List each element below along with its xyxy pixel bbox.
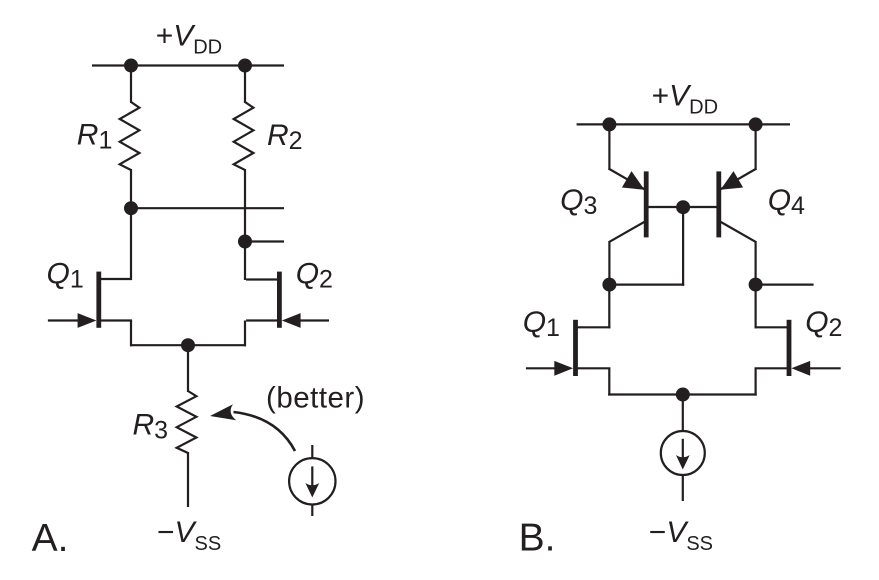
wire Q1 source stub [100,321,132,347]
wire +VDD rail (circuit B) [577,123,790,125]
net +VDD label (circuit A) [156,19,222,58]
wire VDD to R2 [244,64,246,103]
wire R2 to Q2 drain [244,169,246,280]
svg-text:R2: R2 [267,119,303,155]
current source I1 circle [289,458,335,504]
wire Q3 collector [609,222,645,286]
wire Q1 drain (B) [576,284,610,329]
transistor Q3 bar [644,171,649,237]
junction dot R1 top [124,59,138,73]
wire tail to R3 [187,344,189,392]
junction dot Q4 emitter top [749,117,763,131]
resistor R2 label [267,119,303,155]
svg-text:R3: R3 [133,409,169,445]
wire Q1 gate lead (B) [526,367,557,369]
wire Q2 gate lead [298,319,329,321]
svg-text:−VSS: −VSS [157,516,221,555]
wire R3 to -VSS [187,452,189,507]
wire Q2 source stub [245,321,278,347]
junction dot node A [124,201,138,215]
arrow Q3 emitter [622,171,645,190]
transistor Q4 bar [716,171,721,237]
wire tail (B) [608,393,757,395]
net -VSS label (circuit A) [157,516,221,555]
arrow Q1 gate (B) [554,361,573,376]
wire output stub (B) [756,284,814,286]
wire VDD to R1 [130,64,132,103]
wire Q3 base [647,206,683,208]
current source I2 lead bottom [682,475,684,501]
curved annotation arrow [210,404,295,451]
svg-text:R1: R1 [77,119,113,155]
junction dot Q2 drain (B) [749,278,763,292]
arrow Q4 emitter [721,171,744,190]
wire Q1 gate lead [48,319,80,321]
svg-text:(better): (better) [266,382,365,415]
svg-text:Q3: Q3 [560,184,597,220]
wire base node down [682,206,684,286]
transistor Q1 label (B) [523,306,560,342]
junction dot tail (B) [676,388,690,402]
current source I2 lead top [682,393,684,432]
resistor R1 label [77,119,113,155]
wire Q2 drain (B) [755,284,789,329]
junction dot R2 top [238,59,252,73]
wire Q2 drain stub [246,278,278,280]
wire Q4 collector [720,222,756,286]
net -VSS label (circuit B) [649,516,713,555]
current source I1 lead top [311,445,313,459]
junction dot Q1 drain (B) [602,278,616,292]
wire R1 to node [130,169,132,209]
wire base node to Q1 drain [608,284,684,286]
junction dot Q2 drain stub [238,235,252,249]
current source I1 arrow [305,466,319,497]
label B. [519,517,556,560]
junction dot base node [676,200,690,214]
net +VDD label (circuit B) [652,79,718,118]
annotation (better) [266,382,365,415]
svg-text:+VDD: +VDD [156,19,222,58]
junction dot tail (A) [181,338,195,352]
wire Q2 source (B) [755,368,789,395]
current source I1 lead bottom [311,505,313,517]
resistor R2 [234,102,254,170]
wire Q1 drain stub [100,209,132,279]
svg-text:Q4: Q4 [768,184,805,220]
svg-text:B.: B. [519,517,556,560]
transistor Q2 bar [277,272,282,328]
wire Q4 base [682,206,718,208]
wire tail (A) [130,344,246,346]
transistor Q2 label (B) [805,306,842,342]
label A. [32,517,69,560]
arrow Q2 gate (B) [791,361,810,376]
current source I2 arrow [676,439,690,470]
arrow Q2 gate [282,313,301,328]
svg-text:+VDD: +VDD [652,79,718,118]
transistor Q1 bar (B) [573,320,578,376]
transistor Q3 label [560,184,597,220]
wire node A output [131,207,284,209]
transistor Q4 label [768,184,805,220]
svg-text:Q1: Q1 [523,306,560,342]
transistor Q2 bar (B) [787,320,792,376]
svg-text:Q1: Q1 [47,258,84,294]
wire Q3 emitter [609,123,646,190]
svg-text:Q2: Q2 [296,258,333,294]
wire Q4 emitter [720,123,757,190]
wire Q2 gate lead (B) [808,367,841,369]
current source I2 circle [661,431,705,475]
svg-text:Q2: Q2 [805,306,842,342]
resistor R1 [120,102,140,170]
wire Q1 source (B) [577,368,611,395]
svg-text:A.: A. [32,517,69,560]
resistor R3 label [133,409,169,445]
transistor Q1 bar [96,272,101,328]
transistor Q1 label [47,258,84,294]
wire Q2 drain output stub [245,240,284,242]
junction dot Q3 emitter top [602,117,616,131]
resistor R3 [177,391,197,453]
arrow Q1 gate [78,313,97,328]
transistor Q2 label [296,258,333,294]
svg-text:−VSS: −VSS [649,516,713,555]
wire +VDD rail (circuit A) [92,64,284,66]
